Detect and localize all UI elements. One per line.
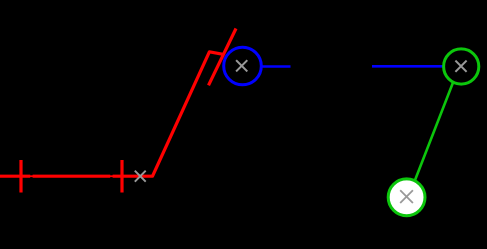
pinch notch 2 on red line — [110, 174, 112, 175]
node: station tick 1 on red line — [19, 160, 22, 193]
wire: blue segment 1 from blue circle — [260, 65, 291, 68]
interchange U2: green circle (right) — [444, 49, 479, 84]
wire: red horizontal line (left edge to corner, continues as main diagonal and peak connector) — [0, 52, 223, 176]
node A: gray x marker at red line bend — [135, 171, 146, 182]
terminus U3: green circle with white fill (bottom) — [388, 179, 425, 216]
interchange U1: blue circle — [224, 47, 262, 85]
pinch notch 1 on red line — [30, 174, 32, 175]
node D: gray x marker inside white circle — [400, 190, 413, 203]
wire: blue segment 2 to green circle — [372, 65, 446, 68]
wire: green diagonal between green circles — [414, 80, 455, 184]
node C: gray x marker inside right green circle — [455, 61, 466, 72]
node B: gray x marker inside blue circle — [236, 60, 247, 71]
wire: red second diagonal — [209, 29, 237, 86]
node: station tick 2 on red line — [120, 160, 123, 193]
